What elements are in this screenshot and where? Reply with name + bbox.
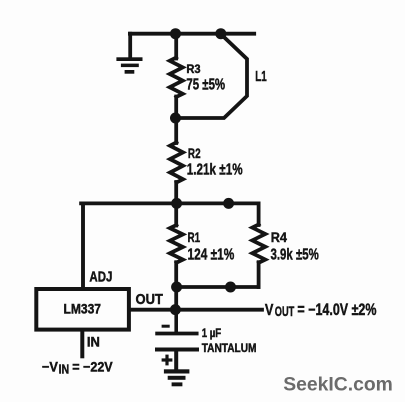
svg-text:L1: L1 xyxy=(255,68,267,85)
svg-text:V: V xyxy=(265,302,274,319)
svg-text:−V: −V xyxy=(42,359,59,374)
svg-text:1 µF: 1 µF xyxy=(202,326,222,340)
svg-text:SeekIC.com: SeekIC.com xyxy=(283,374,393,396)
svg-text:ADJ: ADJ xyxy=(89,269,112,286)
svg-text:3.9k ±5%: 3.9k ±5% xyxy=(271,247,319,264)
svg-text:= −14.0V ±2%: = −14.0V ±2% xyxy=(297,301,377,319)
svg-text:R2: R2 xyxy=(188,146,201,161)
svg-text:1.21k ±1%: 1.21k ±1% xyxy=(187,162,243,179)
svg-text:IN: IN xyxy=(87,335,100,350)
svg-text:LM337: LM337 xyxy=(64,301,102,316)
svg-text:75 ±5%: 75 ±5% xyxy=(186,77,225,94)
svg-text:R3: R3 xyxy=(186,62,200,76)
svg-text:R1: R1 xyxy=(188,229,201,245)
svg-text:TANTALUM: TANTALUM xyxy=(202,341,257,355)
svg-text:OUT: OUT xyxy=(275,304,295,319)
svg-text:124 ±1%: 124 ±1% xyxy=(188,247,235,264)
svg-text:R4: R4 xyxy=(271,230,287,246)
svg-text:OUT: OUT xyxy=(136,291,164,308)
svg-text:IN: IN xyxy=(59,362,70,377)
svg-text:= −22V: = −22V xyxy=(72,359,113,374)
